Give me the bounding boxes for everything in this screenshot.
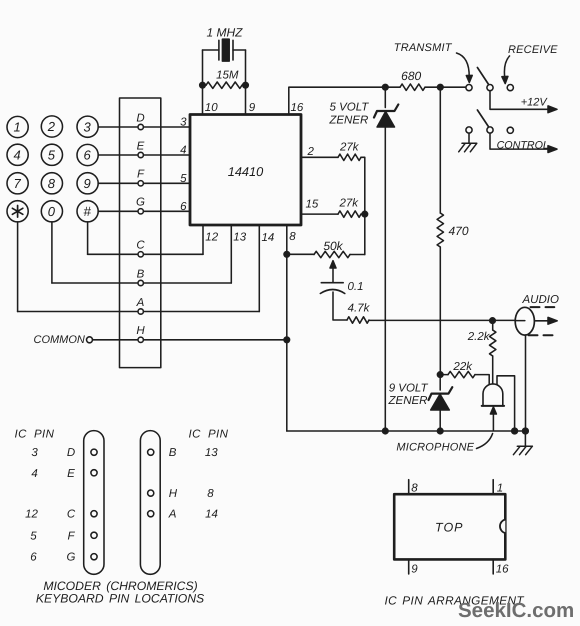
svg-text:ZENER: ZENER [328, 114, 368, 126]
IC package pin 9 stub [408, 559, 410, 574]
svg-text:6: 6 [83, 148, 91, 163]
COMMON terminal [87, 337, 93, 343]
crystal Y1 leads [203, 49, 246, 51]
wire zener9 anode to rail [439, 410, 441, 431]
IC package pin 8 stub [408, 480, 410, 495]
switch S1 lever [477, 68, 488, 85]
node E [138, 152, 143, 157]
wire pin 16 up and right [289, 87, 400, 114]
wire cap to audio line [333, 292, 347, 320]
arrow receive leader [504, 56, 509, 78]
keypad key star [7, 201, 28, 222]
wire key0 column down to B row [51, 222, 53, 283]
svg-text:2.2k: 2.2k [467, 331, 491, 343]
wire pin 12 vertical [202, 225, 204, 254]
potentiometer 50k [287, 253, 314, 255]
svg-text:16: 16 [291, 102, 304, 114]
IC U1 14410 body [190, 115, 301, 226]
resistor 470 [437, 213, 443, 247]
svg-text:13: 13 [233, 231, 246, 243]
keypad key 3 [77, 116, 98, 137]
svg-text:MICROPHONE: MICROPHONE [396, 441, 474, 453]
svg-text:16: 16 [496, 563, 509, 575]
wire to chassis ground right [524, 431, 526, 446]
wire key6 to E node to IC pin 4 [98, 154, 190, 156]
keyboard pill left hole F [91, 532, 97, 538]
keyboard pill left hole D [91, 449, 97, 455]
capacitor 0.1 top plate [321, 282, 343, 284]
svg-text:8: 8 [207, 488, 214, 500]
svg-text:3: 3 [180, 116, 187, 128]
svg-text:9: 9 [83, 176, 90, 191]
junction rail zener9 [437, 428, 443, 434]
svg-text:TOP: TOP [435, 520, 463, 534]
node B [138, 280, 143, 285]
wire 27k to vertical bus [361, 157, 365, 254]
wire mic right terminal to rail [497, 376, 515, 431]
keyboard pill right hole B [148, 449, 154, 455]
svg-text:8: 8 [289, 231, 296, 243]
svg-text:RECEIVE: RECEIVE [508, 44, 558, 56]
svg-text:IC PIN: IC PIN [189, 428, 229, 440]
keypad key 6 [77, 144, 98, 165]
wire 470 branch upper [439, 87, 441, 213]
keyboard pill right hole H [148, 490, 154, 496]
IC package pin 1 stub [492, 480, 494, 495]
svg-text:9: 9 [249, 102, 256, 114]
svg-text:12: 12 [205, 231, 218, 243]
svg-text:10: 10 [205, 102, 218, 114]
svg-text:0.1: 0.1 [348, 281, 364, 293]
svg-text:8: 8 [48, 176, 56, 191]
svg-text:4: 4 [31, 468, 37, 480]
keyboard pill left hole E [91, 470, 97, 476]
junction H common on pin8 line [284, 337, 290, 343]
arrow audio out [536, 320, 550, 322]
resistor 680 [400, 84, 425, 90]
wire pin 9 vertical [245, 50, 247, 115]
svg-text:13: 13 [205, 447, 218, 459]
svg-text:G: G [136, 197, 145, 209]
svg-text:AUDIO: AUDIO [522, 294, 559, 306]
svg-text:9 VOLT: 9 VOLT [389, 383, 429, 395]
wire pin 10 vertical [202, 50, 204, 115]
wire zener5 anode down to rail [384, 127, 386, 431]
svg-text:1: 1 [13, 120, 20, 135]
svg-text:7: 7 [13, 176, 21, 191]
svg-text:680: 680 [401, 69, 421, 83]
crystal Y1 plates [219, 40, 233, 60]
junction 2.2k top [490, 318, 496, 324]
svg-text:KEYBOARD PIN LOCATIONS: KEYBOARD PIN LOCATIONS [36, 592, 204, 606]
switch S2 right contact [507, 127, 513, 133]
audio jack center pin [515, 320, 525, 322]
svg-text:15M: 15M [216, 70, 239, 82]
keypad key pound [77, 201, 98, 222]
junction zener5 top [383, 84, 389, 90]
svg-text:E: E [137, 140, 145, 152]
svg-text:1: 1 [497, 482, 503, 494]
svg-text:H: H [136, 325, 145, 337]
wire COMMON to H node to pin 8 vertical [93, 339, 287, 341]
junction 27k bus [362, 211, 368, 217]
node C [138, 252, 143, 257]
switch S2 pole contact [487, 127, 493, 133]
svg-text:5: 5 [48, 147, 56, 162]
wire A row to pin 14 vertical [18, 311, 260, 313]
svg-text:4: 4 [13, 147, 20, 162]
node F [138, 181, 143, 186]
svg-text:4.7k: 4.7k [348, 302, 371, 314]
keyboard pill left [84, 431, 104, 575]
keyboard pill right hole A [148, 511, 154, 517]
switch S2 control left contact [466, 127, 472, 133]
zener D1 5 volt triangle [377, 112, 394, 128]
wire pole to CONTROL arrow [490, 133, 549, 149]
svg-text:#: # [83, 204, 91, 219]
svg-text:H: H [169, 488, 178, 500]
svg-text:14: 14 [262, 232, 275, 244]
svg-text:50k: 50k [323, 239, 343, 253]
svg-text:B: B [137, 268, 145, 280]
svg-text:5 VOLT: 5 VOLT [330, 101, 370, 113]
svg-text:27k: 27k [339, 197, 360, 209]
svg-text:IC PIN: IC PIN [15, 428, 55, 440]
switch S2 lever [477, 110, 488, 126]
connector box [120, 98, 161, 368]
keyboard pill right [140, 431, 160, 575]
resistor 22k [448, 371, 475, 377]
ground rail bottom [287, 430, 526, 432]
wire B row to pin 13 vertical [52, 282, 231, 284]
keypad key 0 [41, 201, 62, 222]
IC package notch [500, 520, 505, 534]
dashed audio top [531, 306, 555, 308]
svg-text:COMMON: COMMON [34, 334, 85, 346]
svg-text:14: 14 [205, 509, 218, 521]
junction 50k left on pin8 line [284, 252, 290, 258]
wire 680 to transmit contact [425, 86, 466, 88]
node G [138, 209, 143, 214]
resistor 2.2k [492, 321, 494, 330]
keypad key 8 [41, 173, 62, 194]
svg-text:5: 5 [30, 530, 37, 542]
wire control contact to ground [468, 133, 470, 143]
wire 470 down to 22k junction [439, 247, 441, 375]
svg-text:D: D [67, 447, 75, 459]
wire keypound to G node to IC pin 6 [98, 210, 190, 212]
svg-text:14410: 14410 [228, 164, 264, 179]
svg-text:C: C [67, 509, 76, 521]
keypad key 5 [41, 144, 62, 165]
svg-text:15: 15 [306, 198, 319, 210]
wire pole to +12V arrow [490, 91, 549, 110]
junction rail mic [512, 428, 518, 434]
svg-text:470: 470 [449, 224, 469, 238]
svg-text:TRANSMIT: TRANSMIT [394, 42, 453, 54]
label key star glyph [12, 206, 22, 218]
audio jack J1 [515, 307, 534, 335]
wire pin 13 vertical [230, 225, 232, 283]
svg-text:A: A [168, 509, 177, 521]
svg-text:C: C [136, 240, 145, 252]
wire to 9V zener [439, 375, 441, 390]
keypad key 1 [7, 116, 28, 137]
node H [138, 337, 143, 342]
svg-text:22k: 22k [452, 361, 473, 373]
resistor 4.7k [347, 317, 369, 323]
wire pin 14 vertical [258, 225, 260, 312]
svg-text:ZENER: ZENER [388, 395, 428, 407]
IC package pin 16 stub [492, 559, 494, 574]
svg-text:2: 2 [47, 119, 56, 134]
svg-text:3: 3 [31, 447, 38, 459]
svg-text:B: B [169, 447, 177, 459]
switch S1 pole contact [487, 85, 493, 91]
ground chassis at control [459, 143, 477, 152]
svg-text:2: 2 [307, 146, 315, 158]
svg-text:G: G [67, 552, 76, 564]
junction 15M left [200, 82, 206, 88]
svg-text:6: 6 [180, 201, 187, 213]
wire keypound column down to C row [87, 222, 89, 254]
crystal Y1 body [222, 39, 229, 61]
wire keystar column down to A row [17, 222, 19, 312]
keypad key 7 [7, 173, 28, 194]
switch S1 transmit contact [466, 85, 472, 91]
svg-text:SeekIC.com: SeekIC.com [458, 599, 574, 622]
junction 15M right [243, 82, 249, 88]
svg-text:6: 6 [30, 552, 37, 564]
IC package outline TOP view [394, 494, 505, 559]
switch S1 receive contact [507, 85, 513, 91]
wire 22k to mic top [475, 375, 489, 385]
svg-text:F: F [67, 530, 75, 542]
svg-text:D: D [136, 112, 144, 124]
keypad key 2 [41, 116, 62, 137]
svg-text:8: 8 [411, 482, 418, 494]
wire audio shield down to rail [525, 335, 527, 431]
wire 4.7k to audio jack [369, 319, 525, 321]
keypad key 4 [7, 144, 28, 165]
microphone MK1 body [483, 384, 503, 406]
arrow +12V [548, 106, 557, 113]
svg-text:9: 9 [411, 563, 418, 575]
wire C row to pin 12 vertical [88, 253, 203, 255]
wire pin 8 vertical down to ground rail [286, 225, 288, 431]
svg-text:CONTROL: CONTROL [497, 140, 549, 152]
zener D2 9 volt bar [429, 387, 453, 400]
svg-text:F: F [137, 169, 145, 181]
svg-text:27k: 27k [339, 141, 360, 153]
svg-text:A: A [136, 297, 145, 309]
wire pin 15 [301, 213, 338, 215]
arrow transmit leader [457, 53, 470, 77]
svg-text:4: 4 [180, 145, 186, 157]
junction 22k left [437, 372, 443, 378]
capacitor 0.1 curved plate [320, 290, 345, 294]
keypad key 9 [77, 173, 98, 194]
wire 2.2k to mic top [492, 356, 494, 384]
svg-text:1 MHZ: 1 MHZ [207, 25, 244, 39]
svg-text:E: E [67, 468, 75, 480]
wire key3 to D node to IC pin 3 [98, 126, 190, 128]
keyboard pill left hole C [91, 511, 97, 517]
arrow CONTROL [548, 146, 557, 153]
resistor 27k pin2 [338, 154, 361, 160]
zener D2 9 volt triangle [431, 394, 450, 410]
wire zener5 branch [384, 87, 386, 107]
junction rail audio shield [523, 428, 529, 434]
potentiometer 50k wiper arrow [332, 266, 334, 283]
resistor 15M [206, 82, 242, 88]
dashed audio bottom [529, 334, 557, 336]
svg-text:0: 0 [48, 204, 56, 219]
zener D1 5 volt bar [374, 105, 398, 118]
junction 470 top [438, 84, 444, 90]
microphone label leader [477, 434, 493, 449]
svg-text:3: 3 [83, 119, 91, 134]
wire key9 to F node to IC pin 5 [98, 182, 190, 184]
node D [138, 124, 143, 129]
microphone MK1 bottom plate [482, 405, 504, 407]
wire pin 2 [301, 156, 338, 158]
svg-text:+12V: +12V [521, 96, 549, 108]
microphone pointer arrow [492, 412, 494, 430]
node A [138, 309, 143, 314]
keyboard pill left hole G [91, 554, 97, 560]
resistor 27k pin15 [338, 211, 361, 217]
svg-text:12: 12 [25, 509, 38, 521]
svg-text:5: 5 [180, 173, 187, 185]
junction rail zener5 [383, 428, 389, 434]
ground chassis right [513, 446, 532, 455]
